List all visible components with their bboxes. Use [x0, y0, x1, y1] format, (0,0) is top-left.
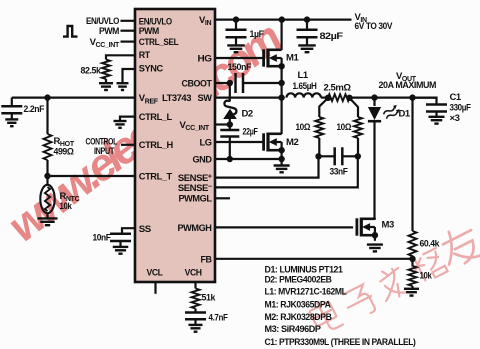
- wire RHOT to RNTC node: [46, 160, 48, 176]
- node RHOT/RNTC junction: [44, 173, 50, 179]
- op-amp U1 LT3743 controller body: [135, 9, 215, 282]
- node SW junction: [278, 94, 284, 100]
- wire 33nF to right node: [342, 155, 358, 157]
- svg-text:SYNC: SYNC: [139, 63, 164, 74]
- svg-text:C1: PTPR330M9L (THREE IN PARAL: C1: PTPR330M9L (THREE IN PARALLEL): [265, 337, 416, 348]
- svg-text:499Ω: 499Ω: [54, 147, 75, 158]
- ground M2 source: [274, 166, 290, 173]
- capacitor C1 330uF x3: [426, 105, 447, 112]
- wire M2 source to GND rail: [281, 150, 283, 159]
- wire 82uF stub: [306, 20, 308, 30]
- wire CTRL_T: [48, 175, 136, 177]
- node D1 junction: [371, 94, 377, 100]
- svg-text:RT: RT: [139, 50, 151, 61]
- wire CBOOT pin: [215, 82, 231, 84]
- wire VCL stub: [154, 282, 156, 294]
- wire CTRL_L to ground: [120, 117, 135, 121]
- node FB junction: [409, 256, 415, 262]
- wire divider mid: [411, 256, 413, 266]
- svg-text:SS: SS: [139, 224, 151, 235]
- svg-text:GND: GND: [193, 154, 213, 165]
- capacitor 22uF: [220, 130, 239, 137]
- svg-text:M3: SiR496DP: M3: SiR496DP: [265, 324, 322, 335]
- watermark char 烧: [408, 245, 448, 284]
- wire D1 cathode to M3 drain: [373, 121, 375, 220]
- wire 4.7nF to ground: [194, 319, 196, 325]
- svg-text:FB: FB: [201, 254, 213, 265]
- transistor M2: [264, 133, 282, 152]
- svg-text:1.65µH: 1.65µH: [293, 81, 318, 92]
- wire PWMGH to M3 gate: [215, 226, 353, 228]
- svg-text:CTRL_T: CTRL_T: [139, 172, 173, 183]
- resistor 2.5mohm sense: [328, 94, 350, 101]
- svg-text:VCH: VCH: [185, 268, 203, 279]
- svg-text:VCL: VCL: [147, 268, 164, 279]
- ground 1uF: [227, 45, 245, 52]
- svg-text:M1: RJK0365DPA: M1: RJK0365DPA: [265, 299, 332, 310]
- wire HG to M1 gate: [215, 57, 264, 59]
- node VIN junction M1 drain: [279, 16, 285, 22]
- svg-text:33nF: 33nF: [330, 167, 349, 178]
- node M1 source / 150nF junction: [278, 80, 284, 86]
- svg-text:CTRL_SEL: CTRL_SEL: [139, 37, 179, 48]
- wire SENSE+: [215, 156, 319, 177]
- node sense right: [346, 95, 352, 101]
- wire sense right to 10ohm: [350, 98, 359, 117]
- wire 1uF stub: [235, 20, 237, 30]
- svg-text:1µF: 1µF: [250, 29, 265, 40]
- watermark char 子: [342, 284, 378, 322]
- wire sense left to 10ohm: [319, 98, 328, 117]
- wire M1 source to SW node: [281, 66, 283, 98]
- svg-text:60.4k: 60.4k: [420, 239, 441, 250]
- svg-text:D2: D2: [242, 109, 253, 120]
- svg-text:SW: SW: [198, 93, 212, 104]
- transistor M1: [264, 49, 282, 68]
- resistor 10ohm right: [354, 117, 362, 138]
- wire M1 drain to VIN rail: [281, 20, 283, 50]
- wire SYNC pin to ground: [123, 69, 136, 83]
- svg-text:6V TO 30V: 6V TO 30V: [355, 21, 393, 32]
- wire M3 source to ground: [374, 235, 376, 241]
- capacitor 10nF SS: [110, 234, 131, 241]
- wire 22uF to GND rail: [229, 137, 231, 160]
- ground RNTC: [38, 218, 58, 225]
- resistor 10ohm left: [315, 117, 323, 138]
- wire L1 to sense resistor: [321, 96, 328, 98]
- node sense left: [325, 95, 331, 101]
- wire sense to VOUT / C1: [350, 96, 437, 98]
- wire RT pin: [106, 55, 135, 59]
- resistor 10k FB: [409, 266, 417, 286]
- wire VOUT to C1: [413, 98, 437, 104]
- svg-text:CBOOT: CBOOT: [182, 79, 213, 90]
- wire SW pin to inductor: [215, 96, 283, 98]
- wire 10ohm right to 33nF node: [357, 138, 359, 156]
- ground FB divider: [404, 289, 419, 296]
- ground VCH: [189, 325, 203, 332]
- wire 10ohm left to 33nF node: [318, 138, 320, 156]
- wire VCC_INT pin: [215, 123, 230, 125]
- wire 82.5k to ground: [105, 79, 107, 83]
- wire CTRL_SEL stub: [121, 40, 136, 42]
- ground M3: [367, 245, 383, 252]
- wire to 33nF: [319, 155, 335, 157]
- capacitor 33nF: [335, 147, 343, 165]
- svg-text:LT3743: LT3743: [162, 93, 191, 104]
- node 33nF left: [315, 153, 321, 159]
- wire C1 to ground: [435, 112, 437, 117]
- svg-text:150nF: 150nF: [228, 62, 252, 73]
- svg-text:HG: HG: [198, 54, 212, 65]
- svg-text:LG: LG: [200, 138, 212, 149]
- svg-text:10nF: 10nF: [93, 233, 112, 244]
- wire PWMGL stub: [215, 197, 230, 199]
- wire CTRL_H control input stub: [121, 144, 135, 146]
- svg-text:2.2nF: 2.2nF: [24, 104, 45, 115]
- resistor 60.4k: [409, 231, 417, 256]
- capacitor 1uF: [226, 30, 247, 37]
- svg-text:82.5k: 82.5k: [81, 66, 102, 77]
- svg-text:10k: 10k: [420, 271, 433, 282]
- ground 82uF: [298, 45, 316, 52]
- svg-text:PWM: PWM: [139, 26, 159, 37]
- svg-text:22µF: 22µF: [243, 127, 258, 138]
- node CBOOT junction: [227, 80, 233, 86]
- svg-text:10Ω: 10Ω: [296, 122, 311, 133]
- watermark www.elecfans.com: [0, 11, 292, 251]
- node VCC_INT junction: [227, 121, 233, 127]
- LED D1 light arrows: [383, 104, 402, 121]
- ground SS: [113, 247, 129, 254]
- watermark char 发: [373, 264, 410, 303]
- ground RT: [99, 83, 113, 90]
- svg-text:PWMGH: PWMGH: [178, 223, 213, 234]
- svg-text:PWM: PWM: [99, 26, 119, 37]
- svg-text:×3: ×3: [450, 113, 460, 124]
- ground 2.2nF: [5, 119, 18, 126]
- wire VOUT to D1 anode: [373, 98, 375, 106]
- svg-text:CTRL_L: CTRL_L: [139, 112, 173, 123]
- svg-text:L1: MVR1271C-162ML: L1: MVR1271C-162ML: [265, 287, 348, 298]
- ground CTRL_L: [114, 121, 127, 128]
- capacitor 2.2nF: [1, 106, 22, 113]
- pulse waveform symbol: [63, 26, 78, 37]
- resistor RHOT 499: [44, 134, 52, 160]
- node VIN junction 82uF: [304, 16, 310, 22]
- wire M2 drain to SW node: [281, 98, 283, 134]
- wire 150nF to SW node: [243, 82, 282, 84]
- svg-text:51k: 51k: [202, 293, 217, 304]
- diode D2 schottky PMEG4002EB: [224, 101, 236, 114]
- LED D1 LUMINUS PT121: [368, 107, 381, 120]
- wire PWM stub: [121, 30, 136, 32]
- svg-text:PWMGL: PWMGL: [179, 194, 213, 205]
- svg-text:M2: M2: [286, 137, 298, 148]
- svg-text:M1: M1: [286, 53, 299, 64]
- ground C1: [429, 117, 445, 124]
- resistor 51k VCH: [192, 289, 200, 309]
- svg-text:2.5mΩ: 2.5mΩ: [324, 83, 352, 94]
- node GND junction M2 source: [278, 156, 284, 162]
- transistor M3: [357, 218, 375, 237]
- svg-text:D2: PMEG4002EB: D2: PMEG4002EB: [265, 275, 333, 286]
- wire VCH pin: [194, 282, 196, 289]
- wire to 22uF: [229, 125, 231, 131]
- svg-text:C1: C1: [450, 92, 462, 103]
- node 33nF right: [355, 153, 361, 159]
- wire CBOOT down to D2 cathode (crosses SW): [229, 83, 231, 101]
- svg-text:M3: M3: [382, 220, 394, 231]
- wire SS pin: [122, 228, 135, 234]
- svg-text:L1: L1: [298, 70, 309, 81]
- capacitor 150nF: [236, 73, 244, 93]
- wire VOUT to 60.4k: [411, 98, 413, 231]
- wire M3 drain join: [374, 218, 376, 219]
- wire 10k to ground: [411, 286, 413, 288]
- wire VREF to RHOT: [46, 98, 48, 134]
- svg-text:CTRL_H: CTRL_H: [139, 140, 174, 151]
- wire 2.2nF stub: [11, 98, 13, 107]
- wire VREF rail: [12, 96, 135, 98]
- svg-text:SENSE−: SENSE−: [178, 183, 212, 194]
- wire 10nF to ground: [119, 241, 121, 247]
- wire SENSE-: [215, 156, 358, 187]
- node GND junction 22uF: [227, 156, 233, 162]
- inductor L1 1.65uH: [287, 93, 321, 97]
- wire RNTC to ground: [46, 213, 48, 218]
- svg-text:10k: 10k: [60, 201, 73, 212]
- wire 82uF to ground: [306, 37, 308, 45]
- node VIN junction 1uF: [233, 16, 239, 22]
- svg-text:20A MAXIMUM: 20A MAXIMUM: [379, 80, 437, 91]
- wire 2.2nF to ground: [11, 113, 13, 119]
- wire EN/UVLO stub: [121, 20, 136, 22]
- watermark char 友: [436, 222, 480, 270]
- wire D2 anode to VCC_INT node: [229, 119, 231, 125]
- svg-text:4.7nF: 4.7nF: [209, 313, 229, 324]
- resistor 82.5k RT: [102, 60, 110, 80]
- svg-text:INPUT: INPUT: [94, 146, 114, 157]
- thermistor RNTC: [46, 176, 48, 184]
- svg-text:82µF: 82µF: [320, 31, 344, 42]
- wire GND pin rail: [215, 158, 282, 160]
- capacitor 4.7nF: [185, 313, 206, 320]
- node VOUT junction: [409, 94, 415, 100]
- wire 51k to 4.7nF: [194, 309, 196, 313]
- ground SYNC: [117, 83, 129, 90]
- wire VIN rail: [215, 19, 352, 21]
- node VREF junction: [44, 94, 50, 100]
- svg-text:M2: RJK0328DPB: M2: RJK0328DPB: [265, 312, 333, 323]
- svg-text:10Ω: 10Ω: [337, 122, 352, 133]
- watermark char 电: [307, 297, 342, 336]
- svg-text:D1: D1: [399, 109, 411, 120]
- wire to ground symbol: [281, 159, 283, 165]
- wire 1uF to ground: [235, 37, 237, 45]
- capacitor 82uF: [297, 30, 318, 37]
- wire FB pin to divider: [215, 258, 413, 260]
- wire LG to M2 gate: [215, 141, 264, 143]
